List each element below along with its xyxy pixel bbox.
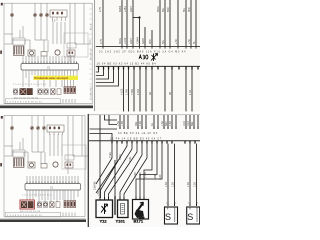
svg-text:1.50: 1.50 (165, 182, 168, 187)
bottom legend bracket TL (6, 99, 61, 104)
junction dot TR (138, 16, 140, 18)
legend marks right BL (63, 213, 75, 217)
straight verticals BR (115, 144, 197, 215)
bus line B TR (96, 65, 200, 67)
svg-text:0.75: 0.75 (99, 7, 102, 12)
wire stubs below connector BL (27, 190, 78, 202)
left margin rotated labels BR (94, 181, 101, 196)
svg-text:1.5E: 1.5E (117, 121, 120, 126)
svg-text:4A: 4A (151, 123, 154, 126)
connector strip X1 BL (25, 184, 81, 191)
svg-text:Y103: Y103 (134, 172, 137, 178)
page left edge shadow BR (87, 114, 89, 227)
connector pins under bus B TR (99, 67, 199, 70)
relay box K TL (50, 10, 67, 17)
svg-text:4A: 4A (149, 92, 152, 95)
ruler ticks right edge (90, 9, 92, 99)
svg-text:58L: 58L (162, 39, 165, 44)
svg-text:3,6A/5A: 3,6A/5A (94, 181, 97, 190)
legend marks right TL (63, 99, 75, 103)
svg-text:1.5 0.5 0.75 1.5 0.5 0.5 1.5: 1.5 0.5 0.75 1.5 0.5 0.5 1.5 (13, 84, 47, 86)
motor component BL (28, 162, 35, 168)
sensor B171 (133, 200, 149, 220)
wire verticals upper TL (12, 4, 84, 63)
svg-text:+.50: +.50 (175, 38, 178, 44)
page background BR (88, 114, 201, 228)
resistor element R6 (67, 200, 69, 207)
svg-text:B171: B171 (134, 219, 144, 224)
svg-text:58OL: 58OL (157, 5, 160, 12)
svg-text:Y101: Y101 (116, 219, 126, 224)
connector cluster X TL (13, 38, 25, 45)
svg-text:+.50: +.50 (121, 121, 124, 126)
glow plug R10 (187, 207, 200, 224)
svg-text:3A05: 3A05 (142, 38, 145, 44)
pin ticks above connector BL (27, 182, 78, 185)
svg-text:58D: 58D (149, 39, 152, 44)
svg-text:56L: 56L (183, 7, 186, 12)
svg-text:7.5W: 7.5W (131, 89, 134, 95)
page bottom shadow BL (0, 219, 86, 220)
wire verticals lower TR (124, 70, 193, 111)
wire verticals upper BL (12, 116, 82, 174)
clock component TL (55, 50, 60, 55)
pigtail end ticks BR (120, 127, 198, 130)
solenoid dark pair in red box (21, 202, 27, 208)
pigtail group 1 BR (120, 115, 198, 128)
solenoid dark pair TL (20, 89, 26, 95)
margin mark mid-left (0, 51, 2, 54)
connector label A30 (139, 55, 148, 59)
junction branch TR (133, 17, 140, 19)
svg-text:X1: X1 (50, 186, 54, 190)
svg-text:58R: 58R (167, 7, 170, 12)
frame border TL (4, 3, 92, 104)
svg-text:1.50: 1.50 (172, 182, 175, 187)
page background TL (0, 0, 93, 109)
svg-text:Przekaznik swiec zarowych: Przekaznik swiec zarowych (35, 76, 69, 80)
svg-text:58L: 58L (162, 7, 165, 12)
rotated wire labels top TR (99, 5, 191, 12)
fan of diagonal wires BR (96, 144, 162, 198)
svg-text:Y12: Y12 (100, 219, 108, 224)
stair-step harness to left edge TR (96, 70, 119, 87)
frame border BL (4, 116, 85, 217)
fuse F6 (30, 126, 34, 130)
svg-text:58O: 58O (165, 121, 168, 126)
svg-text:CMA4: CMA4 (136, 36, 139, 44)
switch component BL (41, 164, 47, 169)
resistor element R3 (70, 86, 72, 93)
svg-text:1.50: 1.50 (169, 121, 172, 126)
resistor element R1 (64, 86, 66, 93)
svg-text:Y12A: Y12A (109, 152, 112, 158)
svg-text:1:1 0,5 0,75 1,5: 1:1 0,5 0,75 1,5 (91, 85, 93, 100)
connector pins under bus BR (112, 141, 195, 144)
wire verticals top TR (103, 0, 196, 47)
svg-text:30/04: 30/04 (119, 5, 122, 12)
bottom tick row TR (124, 110, 193, 112)
scale note right margin TL (91, 23, 93, 100)
motor M component TL (28, 50, 35, 56)
relay small TL (67, 50, 75, 56)
fuse F2 (33, 13, 37, 17)
lamp E1 (13, 89, 17, 94)
svg-text:+1.50: +1.50 (120, 88, 123, 95)
fuse F8 (42, 126, 46, 130)
resistor element R2 (67, 86, 69, 93)
lamp E4 (43, 202, 47, 207)
margin mark mid-left BL (0, 163, 2, 166)
svg-text:1L00: 1L00 (159, 174, 162, 180)
svg-text:04 BE 63 02 +E 2F D3: 04 BE 63 02 +E 2F D3 (118, 132, 158, 135)
svg-text:30E: 30E (135, 121, 138, 126)
bus line A TR (96, 46, 200, 48)
svg-text:0.75: 0.75 (100, 39, 103, 44)
switch component TL (41, 52, 47, 57)
svg-text:12 F4 14 CE BE E5 45 04: 12 F4 14 CE BE E5 45 04 C7 (110, 138, 162, 141)
svg-text:S10K: S10K (119, 154, 122, 160)
svg-text:+.50: +.50 (188, 38, 191, 44)
page background TR (96, 0, 201, 112)
svg-text:1.50: 1.50 (187, 182, 190, 187)
svg-text:2A07: 2A07 (130, 38, 133, 44)
resistor element R7 (70, 200, 72, 207)
relay box BL (47, 125, 64, 132)
sub box outline right TL (64, 33, 88, 57)
pin ticks above connector TL (23, 62, 77, 65)
margin mark top-left (1, 3, 3, 6)
svg-text:4B: 4B (169, 92, 172, 95)
wire mesh middle TL (5, 34, 91, 52)
resistor element R8 (74, 200, 76, 207)
rotated labels pigtails BR (117, 121, 194, 126)
sub box outline right BL (62, 145, 86, 169)
page edge shadow between top pages (94, 0, 96, 111)
svg-text:1.5W: 1.5W (125, 89, 128, 95)
page bottom shadow TL (0, 105, 93, 106)
svg-text:1J06: 1J06 (154, 174, 157, 180)
fuse F1 (10, 13, 14, 17)
svg-text:1.50: 1.50 (194, 182, 197, 187)
connector strip X1 TL (21, 64, 79, 71)
wire mesh middle BL (5, 146, 89, 164)
rotated wire labels mid BR (109, 152, 197, 187)
solenoid valve Y101 (118, 200, 129, 218)
svg-text:1 2 3 4 5 6 7 8 9 10 11 12: 1 2 3 4 5 6 7 8 9 10 11 12 (7, 215, 43, 217)
fuse F7 (36, 126, 40, 130)
glow plug R9 (165, 207, 178, 224)
left harness bracket BR (90, 115, 118, 163)
svg-text:16 04 BE 63 K3 64 15 B2 44: 16 04 BE 63 K3 64 15 B2 44 A5 B4 (97, 63, 157, 66)
resistor element R5 (64, 200, 66, 207)
highlight label yellow (34, 76, 79, 80)
svg-text:1.52: 1.52 (189, 90, 192, 95)
pin ticks on bus A TR (103, 47, 196, 49)
svg-text:0,5 1,5: 0,5 1,5 (91, 23, 93, 30)
relay pins TL (53, 17, 66, 21)
lamp E3 (37, 202, 41, 207)
svg-text:1.5E: 1.5E (161, 121, 164, 126)
x component BL (50, 202, 55, 208)
bus line BR (89, 140, 200, 142)
svg-text:58E: 58E (191, 121, 194, 126)
svg-text:+.50: +.50 (97, 191, 100, 196)
svg-text:+1.50: +1.50 (124, 37, 127, 44)
solenoid valve Y12 (96, 200, 113, 218)
wire stubs above pins TL (23, 56, 74, 62)
svg-text:X1: X1 (47, 66, 51, 70)
wire end ticks above boxes BR (100, 197, 197, 216)
svg-text:56R: 56R (188, 7, 191, 12)
wire stubs below connector TL (23, 70, 77, 87)
fuse F3 (39, 13, 43, 17)
rotated wire labels lower TR (120, 88, 192, 95)
bottom legend bracket BL (6, 212, 61, 217)
svg-text:02 1A2 1H2 2F 6D1 BA6 11A: 02 1A2 1H2 2F 6D1 BA6 11A F16 2A G4 M3 A… (99, 51, 186, 54)
svg-text:Y108: Y108 (144, 172, 147, 178)
highlight red box (20, 200, 34, 209)
svg-text:30OL: 30OL (119, 37, 122, 44)
svg-text:2A07: 2A07 (130, 6, 133, 12)
lamp E2 (44, 89, 48, 94)
svg-text:10.0: 10.0 (183, 121, 186, 126)
svg-text:1.5M: 1.5M (137, 89, 140, 95)
margin mark top-left BL (1, 116, 3, 119)
wire stubs above pins BL (27, 176, 78, 182)
svg-text:Y106: Y106 (139, 172, 142, 178)
resistor element R4 (74, 86, 76, 93)
svg-text:+15U: +15U (124, 6, 127, 12)
x component TL (51, 89, 56, 95)
svg-text:Y101: Y101 (129, 156, 132, 162)
fuse F4 (45, 13, 49, 17)
svg-text:1 2 3 4 5 6 7 8 9 10 11 12: 1 2 3 4 5 6 7 8 9 10 11 12 (7, 101, 43, 103)
relay small BL (65, 162, 73, 168)
svg-text:1.5 0.5 0.75 1.5 0.5 0.5: 1.5 0.5 0.75 1.5 0.5 0.5 (22, 195, 52, 197)
page background BL (0, 114, 93, 223)
connector cluster BL (13, 150, 25, 157)
svg-text:1.5E: 1.5E (139, 121, 142, 126)
page top edge BR (89, 114, 200, 116)
svg-text:0,5 0,75 1,0: 0,5 0,75 1,0 (91, 49, 93, 60)
valve symbol at A30 (151, 54, 158, 62)
clock component BL (53, 162, 58, 167)
svg-text:10.0: 10.0 (187, 121, 190, 126)
fuse F5 (10, 126, 14, 130)
